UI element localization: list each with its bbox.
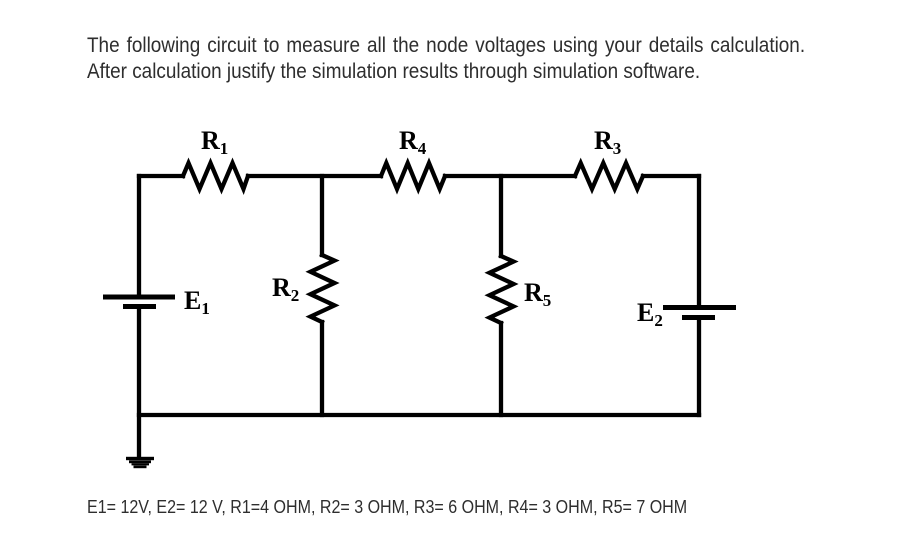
wire top rail between R1 and R4 xyxy=(248,174,381,178)
wire top rail left segment xyxy=(139,174,183,178)
resistor R2 xyxy=(311,255,335,322)
resistor R4 xyxy=(381,163,445,189)
svg-text:R1: R1 xyxy=(201,126,228,158)
battery E1 positive plate xyxy=(103,295,175,300)
wire left branch lower xyxy=(137,309,141,457)
caption: component values xyxy=(87,496,687,518)
svg-text:E1: E1 xyxy=(184,286,210,318)
wire node A vertical upper (to R2) xyxy=(320,176,324,255)
wire node A vertical lower xyxy=(320,322,324,415)
battery E2 negative plate xyxy=(682,315,715,320)
ground xyxy=(126,457,154,468)
wire node B vertical lower xyxy=(499,323,503,415)
wire right branch upper xyxy=(697,176,701,305)
resistor R1 xyxy=(183,163,248,189)
wire bottom rail xyxy=(139,413,699,417)
resistor R3 xyxy=(575,163,643,189)
wire right branch lower xyxy=(697,320,701,415)
svg-text:R4: R4 xyxy=(399,126,427,158)
wire top rail right segment xyxy=(643,174,699,178)
resistor R5 xyxy=(490,256,514,323)
paragraph: problem statement xyxy=(87,33,805,85)
svg-text:R3: R3 xyxy=(594,126,621,158)
wire left branch upper xyxy=(137,176,141,295)
battery E1 negative plate xyxy=(123,304,156,309)
battery E2 positive plate xyxy=(663,305,736,310)
wire top rail between R4 and R3 xyxy=(445,174,575,178)
svg-text:E2: E2 xyxy=(637,298,663,330)
svg-text:R5: R5 xyxy=(524,278,551,310)
wire node B vertical upper (to R5) xyxy=(499,176,503,256)
svg-text:R2: R2 xyxy=(272,273,299,305)
